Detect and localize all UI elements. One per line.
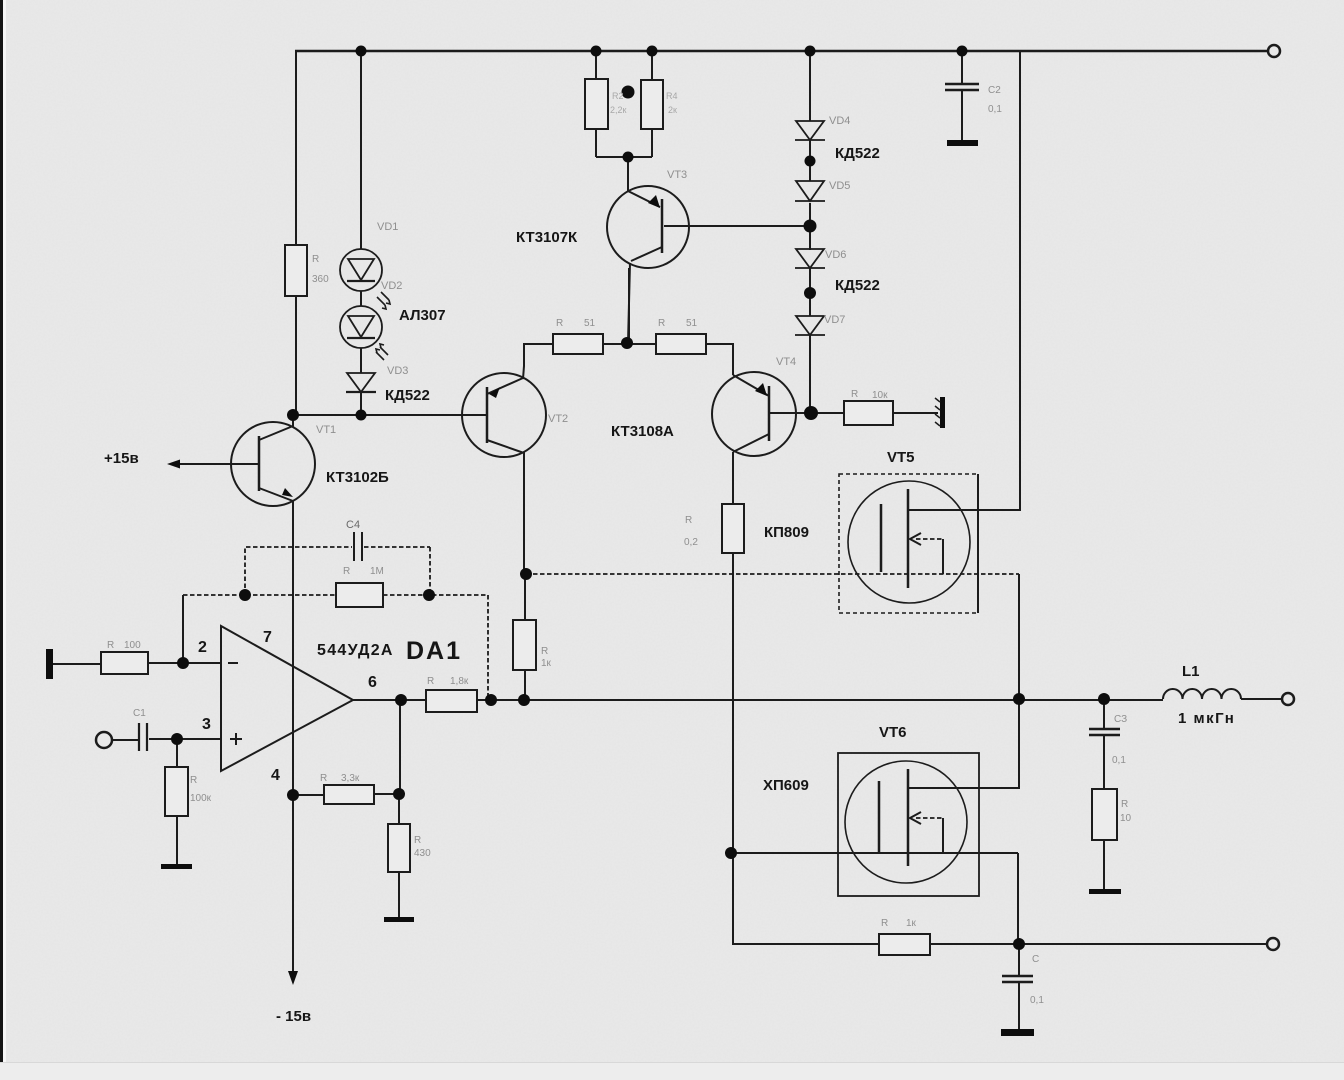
svg-text:R: R [320, 773, 327, 784]
svg-text:1к: 1к [906, 918, 917, 929]
svg-text:КП809: КП809 [764, 524, 809, 541]
svg-text:10к: 10к [872, 390, 888, 401]
svg-text:0,1: 0,1 [988, 104, 1002, 115]
svg-text:R4: R4 [666, 91, 678, 101]
svg-text:+15в: +15в [104, 450, 139, 467]
svg-text:КТ3108А: КТ3108А [611, 423, 674, 440]
svg-text:51: 51 [584, 318, 596, 329]
svg-text:6: 6 [368, 674, 377, 691]
svg-text:1к: 1к [541, 658, 552, 669]
svg-text:VD3: VD3 [387, 365, 408, 377]
svg-text:R: R [881, 918, 888, 929]
svg-text:100: 100 [124, 640, 141, 651]
svg-text:С1: С1 [133, 708, 146, 719]
svg-text:R: R [685, 515, 692, 526]
svg-text:КТ3107К: КТ3107К [516, 229, 578, 246]
svg-text:2: 2 [198, 639, 207, 656]
svg-text:10: 10 [1120, 813, 1132, 824]
svg-text:100к: 100к [190, 793, 212, 804]
svg-text:R: R [427, 676, 434, 687]
svg-text:VT1: VT1 [316, 424, 336, 436]
svg-text:3,3к: 3,3к [341, 773, 360, 784]
svg-text:VT4: VT4 [776, 356, 796, 368]
svg-text:R: R [312, 254, 319, 265]
svg-text:DA1: DA1 [406, 637, 462, 665]
svg-text:2к: 2к [668, 105, 677, 115]
svg-text:0,2: 0,2 [684, 537, 698, 548]
svg-text:С: С [1032, 954, 1039, 965]
svg-text:L1: L1 [1182, 663, 1200, 680]
svg-text:C2: C2 [988, 85, 1001, 96]
svg-text:VT5: VT5 [887, 449, 915, 466]
svg-text:С4: С4 [346, 519, 360, 531]
svg-text:КД522: КД522 [385, 387, 430, 404]
svg-text:51: 51 [686, 318, 698, 329]
svg-text:R: R [343, 566, 350, 577]
svg-text:R: R [414, 835, 421, 846]
svg-text:VT2: VT2 [548, 413, 568, 425]
svg-text:АЛ307: АЛ307 [399, 307, 446, 324]
svg-text:VD1: VD1 [377, 221, 398, 233]
svg-text:0,1: 0,1 [1112, 755, 1126, 766]
svg-text:VT6: VT6 [879, 724, 907, 741]
svg-text:1М: 1М [370, 566, 384, 577]
svg-text:2,2к: 2,2к [610, 105, 627, 115]
svg-text:0,1: 0,1 [1030, 995, 1044, 1006]
svg-text:VD5: VD5 [829, 180, 850, 192]
svg-text:- 15в: - 15в [276, 1008, 311, 1025]
svg-text:R: R [556, 318, 563, 329]
svg-text:R: R [658, 318, 665, 329]
svg-text:КД522: КД522 [835, 145, 880, 162]
svg-text:3: 3 [202, 716, 211, 733]
svg-text:360: 360 [312, 274, 329, 285]
svg-text:СЗ: СЗ [1114, 714, 1127, 725]
svg-text:VD4: VD4 [829, 115, 850, 127]
svg-text:R: R [851, 389, 858, 400]
svg-text:7: 7 [263, 629, 272, 646]
svg-text:R: R [1121, 799, 1128, 810]
svg-text:КД522: КД522 [835, 277, 880, 294]
svg-text:ХП609: ХП609 [763, 777, 809, 794]
svg-text:VD7: VD7 [824, 314, 845, 326]
svg-text:R: R [541, 646, 548, 657]
svg-text:1 мкГн: 1 мкГн [1178, 710, 1235, 727]
svg-text:VD2: VD2 [381, 280, 402, 292]
svg-text:430: 430 [414, 848, 431, 859]
svg-text:4: 4 [271, 767, 280, 784]
svg-text:VD6: VD6 [825, 249, 846, 261]
svg-text:R2: R2 [612, 91, 624, 101]
svg-text:544УД2А: 544УД2А [317, 642, 394, 659]
svg-text:R: R [107, 640, 114, 651]
svg-text:VT3: VT3 [667, 169, 687, 181]
svg-text:КТ3102Б: КТ3102Б [326, 469, 389, 486]
svg-text:1,8к: 1,8к [450, 676, 469, 687]
svg-text:R: R [190, 775, 197, 786]
